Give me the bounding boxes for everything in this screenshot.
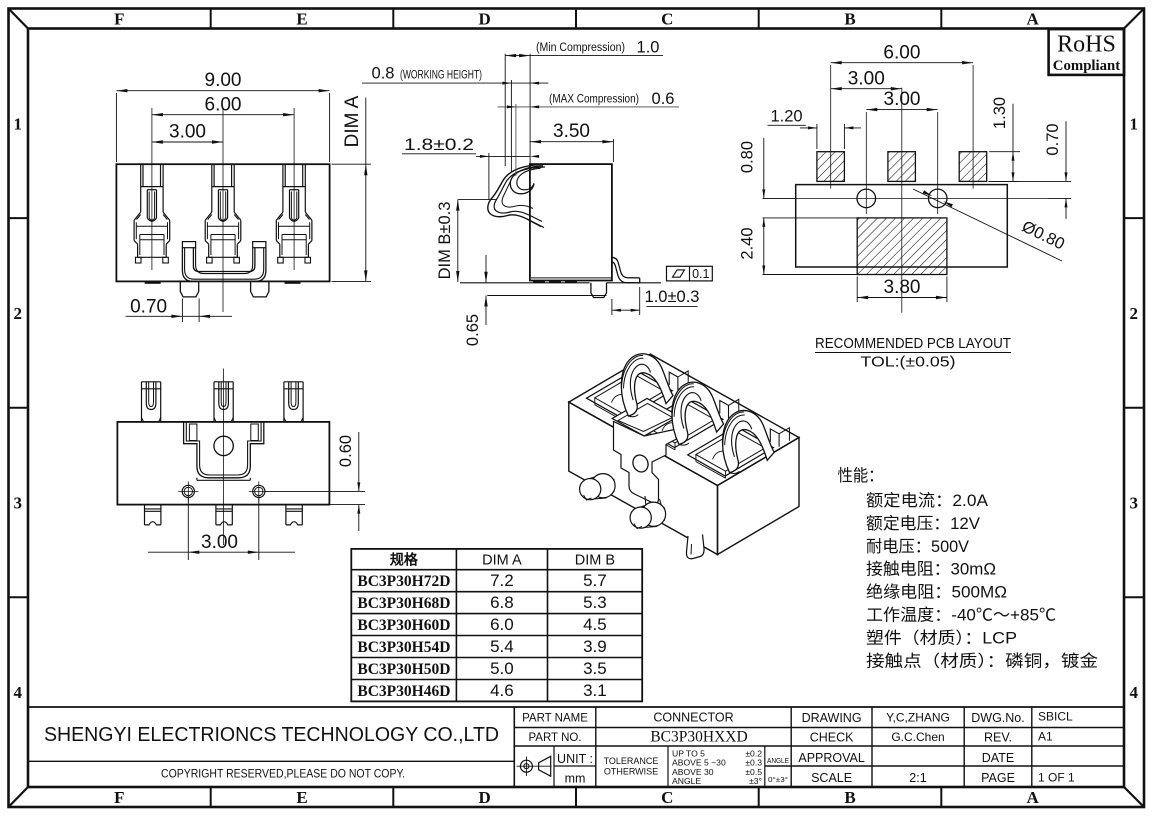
projection symbol [520,760,532,772]
svg-text:(MAX Compression): (MAX Compression) [549,93,639,105]
svg-text:F: F [114,10,124,29]
svg-text:A1: A1 [1038,730,1053,744]
side view connector body [530,164,612,280]
svg-text:0.65: 0.65 [464,314,482,346]
dim 3.00 holes pcb [866,109,937,111]
svg-text:(Min Compression): (Min Compression) [536,42,625,54]
bottom view pin at x=294 [283,382,285,422]
svg-text:5.0: 5.0 [490,659,514,678]
pcb big pad [857,218,947,275]
svg-text:1.20: 1.20 [770,108,802,126]
bracket hole [630,453,650,474]
pcb vertical centerline [901,88,903,313]
svg-text:4.6: 4.6 [490,681,514,700]
svg-text:1: 1 [1130,114,1139,133]
front view solder tab left [180,281,198,297]
svg-text:3.80: 3.80 [884,277,921,298]
svg-text:性能：: 性能： [838,466,884,485]
svg-text:4.5: 4.5 [583,615,607,634]
pcb pad 1 [817,152,845,182]
svg-text:DATE: DATE [982,751,1014,765]
svg-text:D: D [479,788,491,807]
svg-text:1.8±0.2: 1.8±0.2 [404,136,474,154]
dim 9.00 [115,93,117,162]
svg-text:G.C.Chen: G.C.Chen [891,730,944,744]
pcb reference lines under side view [460,282,590,284]
svg-text:工作温度：-40℃～+85℃: 工作温度：-40℃～+85℃ [866,606,1056,625]
isometric slot opening [688,427,774,477]
svg-text:BC3P30HXXD: BC3P30HXXD [650,729,747,746]
svg-text:UNIT :: UNIT : [557,752,593,766]
dim DIM B +/-0.3 [458,199,496,201]
svg-text:Compliant: Compliant [1053,58,1120,74]
svg-text:0.60: 0.60 [337,435,355,467]
svg-text:0.8: 0.8 [372,65,395,83]
svg-text:RECOMMENDED PCB LAYOUT: RECOMMENDED PCB LAYOUT [815,335,1011,352]
isometric back post tab [770,429,779,447]
svg-text:CHECK: CHECK [810,731,854,745]
bottom view foot at x=294 [285,505,287,525]
side view body bottom feet marks [533,281,545,283]
svg-text:BC3P30H72D: BC3P30H72D [357,573,450,590]
dim 0.70 pcb [988,180,1071,182]
dim 0.70 [181,299,183,323]
svg-text:接触点（材质）：磷铜，镀金: 接触点（材质）：磷铜，镀金 [866,651,1099,670]
svg-text:6.8: 6.8 [490,593,514,612]
svg-text:A: A [1027,788,1040,807]
svg-text:1.0: 1.0 [637,39,660,57]
isometric solder lug [591,474,615,499]
svg-text:F: F [114,788,124,807]
front view contact at x=152 [140,164,142,212]
copyright line divider [28,760,514,762]
isometric front foot clip [686,535,704,559]
bottom view pin at x=151 [141,382,143,422]
isometric spring clip [617,350,675,418]
isometric spring clip [667,379,725,447]
svg-text:0.70: 0.70 [1044,123,1062,155]
svg-text:9.00: 9.00 [205,70,242,91]
svg-text:额定电流：2.0A: 额定电流：2.0A [866,491,988,510]
dim 3.80 [856,277,858,303]
svg-text:CONNECTOR: CONNECTOR [653,711,733,725]
svg-text:BC3P30H46D: BC3P30H46D [357,683,450,700]
pcb module outline [796,185,1008,267]
dim 6.00 pcb [831,62,973,64]
bottom view center bracket cup [184,422,264,478]
bracket lower tail [645,496,662,517]
side view body bottom inner line [531,277,612,279]
front view U-strap solder bridge [182,248,266,282]
svg-text:DIM B±0.3: DIM B±0.3 [436,202,454,280]
dia 0.80 leader [913,189,1062,261]
isometric front bracket ledge [612,399,679,437]
dim 6.00 [152,114,294,116]
pcb pad centerlines vertical [830,65,832,189]
U-strap top caps [182,242,195,248]
svg-text:A: A [1027,10,1040,29]
svg-text:TOL:(±0.05): TOL:(±0.05) [861,354,956,371]
svg-text:OTHERWISE: OTHERWISE [604,767,658,777]
svg-text:绝缘电阻：500MΩ: 绝缘电阻：500MΩ [866,583,1007,602]
svg-text:3.9: 3.9 [583,637,607,656]
svg-text:COPYRIGHT RESERVED,PLEASE DO: COPYRIGHT RESERVED,PLEASE DO NOT COPY. [161,769,405,781]
isometric back post tab [720,401,729,419]
svg-text:TOLERANCE: TOLERANCE [604,756,659,766]
svg-text:±3°: ±3° [749,776,762,786]
dim max compression 0.6 [498,106,679,108]
svg-text:接触电阻：30mΩ: 接触电阻：30mΩ [866,560,996,579]
svg-text:BC3P30H54D: BC3P30H54D [357,639,450,656]
frame corner diagonals [9,9,29,29]
front view solder tab right [251,281,269,297]
pcb hole centerline horizontal [763,197,1048,199]
dim 1.20 [816,124,818,149]
svg-text:耐电压：500V: 耐电压：500V [866,537,969,556]
zone tick marks [210,9,212,29]
isometric slot opening [637,398,723,448]
svg-text:SCALE: SCALE [811,771,852,785]
svg-text:(WORKING HEIGHT): (WORKING HEIGHT) [400,69,482,81]
bottom view foot at x=224 [215,505,217,525]
svg-text:1 OF 1: 1 OF 1 [1038,771,1075,785]
svg-text:SHENGYI ELECTRIONCS TECHNOLOGY: SHENGYI ELECTRIONCS TECHNOLOGY CO.,LTD [44,724,499,746]
dim 3.00 front [152,141,223,143]
svg-text:塑件（材质）：LCP: 塑件（材质）：LCP [866,628,1017,647]
svg-text:DIM A: DIM A [482,553,522,569]
flatness tolerance callout [667,266,713,281]
0.60 extension lines [265,490,365,492]
dim 3.00 bottom [187,498,189,560]
svg-text:3: 3 [14,494,23,513]
pcb pad 2 [888,152,916,182]
svg-text:5.7: 5.7 [583,571,607,590]
bottom bracket notch rects [189,424,197,441]
spec table grid [351,549,642,702]
bottom view foot at x=153 [144,505,146,525]
svg-text:REV.: REV. [984,731,1012,745]
svg-text:4: 4 [1130,683,1139,702]
contact feet marks on body bottom [145,281,161,283]
pcb holes [857,189,876,208]
svg-text:0.80: 0.80 [739,141,757,173]
bottom view centerline [223,369,225,546]
isometric front bracket plate [614,422,677,504]
svg-text:E: E [296,788,307,807]
svg-text:PART NO.: PART NO. [528,732,581,744]
spring arm entering body [527,219,544,228]
svg-text:规格: 规格 [390,552,419,568]
svg-text:2:1: 2:1 [909,771,926,785]
svg-text:6.00: 6.00 [883,42,920,63]
svg-text:6.00: 6.00 [205,94,242,115]
svg-text:2: 2 [14,304,23,323]
extension lines above side view [504,54,506,166]
svg-text:mm: mm [565,772,586,786]
dim 0.60 [358,432,360,491]
svg-text:B: B [844,788,855,807]
side view solder tab [591,283,607,298]
side view right gullwing lead [612,257,640,278]
svg-text:BC3P30H50D: BC3P30H50D [357,661,450,678]
svg-text:3.00: 3.00 [169,122,206,143]
side view spring inner rolled tip [510,166,543,194]
svg-text:RoHS: RoHS [1057,32,1116,58]
svg-text:D: D [479,10,491,29]
svg-text:2.40: 2.40 [739,227,757,259]
svg-text:DRAWING: DRAWING [802,711,862,725]
svg-text:1: 1 [14,114,23,133]
isometric connector body box [569,354,799,485]
svg-text:DWG.No.: DWG.No. [971,711,1024,725]
svg-text:3.00: 3.00 [848,68,885,89]
dim 0.80 pcb [763,197,796,199]
svg-text:C: C [661,788,673,807]
bottom bracket circle [214,436,233,455]
svg-text:ANGLE: ANGLE [672,776,701,786]
bottom view body [117,422,329,505]
side view spring contact curl outer [488,164,545,226]
dim 2.40 [763,217,858,219]
svg-text:BC3P30H68D: BC3P30H68D [357,595,450,612]
svg-text:额定电压：12V: 额定电压：12V [866,514,980,533]
dim 0.65 [485,255,487,283]
svg-text:6.0: 6.0 [490,615,514,634]
svg-text:B: B [844,10,855,29]
bottom bracket lower lip [197,479,250,481]
dim 1.8 +/-0.2 [402,153,476,155]
svg-text:1.0±0.3: 1.0±0.3 [645,288,700,306]
dim working height 0.8 [362,82,548,84]
bottom view pin at x=224 [213,382,215,422]
dim DIM A [332,163,371,165]
svg-text:0°±3°: 0°±3° [768,775,788,784]
front view contact at x=223 [211,164,213,212]
svg-text:3.00: 3.00 [884,89,921,110]
dim 1.30 [989,151,1020,153]
front view connector body [116,164,329,281]
svg-text:3.1: 3.1 [583,681,607,700]
svg-text:4: 4 [14,683,23,702]
pcb pad 3 [959,152,987,182]
isometric spring clip [718,407,776,475]
svg-text:0.1: 0.1 [692,267,709,281]
svg-text:SBICL: SBICL [1038,710,1073,724]
svg-text:PAGE: PAGE [981,771,1015,785]
svg-text:1.30: 1.30 [991,97,1009,129]
svg-text:BC3P30H60D: BC3P30H60D [357,617,450,634]
svg-text:C: C [661,10,673,29]
svg-text:3.5: 3.5 [583,659,607,678]
svg-text:Y,C,ZHANG: Y,C,ZHANG [886,711,950,725]
svg-text:E: E [296,10,307,29]
svg-text:7.2: 7.2 [490,571,514,590]
svg-text:DIM B: DIM B [575,553,615,569]
RoHS compliant box [1049,29,1124,75]
isometric back post tab [669,372,678,390]
front view contact at x=294 [282,164,284,212]
svg-text:5.4: 5.4 [490,637,514,656]
svg-text:0.70: 0.70 [130,296,167,317]
svg-text:PART NAME: PART NAME [522,713,588,725]
svg-text:APPROVAL: APPROVAL [798,751,865,765]
svg-text:3: 3 [1130,494,1139,513]
svg-text:2: 2 [1130,304,1139,323]
svg-text:3.00: 3.00 [201,532,238,553]
dim 3.00 pads pcb [831,88,902,90]
dim 3.50 [612,139,614,162]
bottom view screw holes [182,485,194,497]
isometric slot opening [587,370,673,419]
svg-text:0.6: 0.6 [652,90,675,108]
svg-text:3.50: 3.50 [553,121,590,142]
svg-text:5.3: 5.3 [583,593,607,612]
dim min compression 1.0 [505,55,663,57]
dim 1.0 +/-0.3 [611,299,613,315]
isometric solder lug [641,503,665,528]
svg-text:DIM A: DIM A [342,95,363,147]
title block grid [513,707,515,787]
svg-text:ANGLE: ANGLE [767,756,789,765]
